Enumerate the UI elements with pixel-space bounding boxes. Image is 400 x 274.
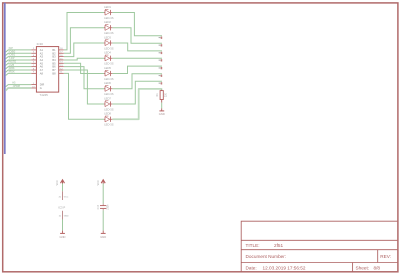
pin B7 (pin 12) (52, 68, 63, 72)
stub end mark 1 (159, 37, 163, 39)
svg-text:LED-3S: LED-3S (104, 123, 114, 127)
supply VCC (C1) (97, 180, 105, 186)
wire IC pin B6 to LED6 anode (64, 67, 104, 89)
pin A1 (pin 2) (31, 48, 43, 52)
svg-text:IC3 P: IC3 P (58, 205, 65, 209)
ground GND (C1) (100, 233, 106, 238)
wire VCC to IC3P VCC pin (62, 184, 64, 192)
svg-text:TITLE:: TITLE: (246, 243, 260, 248)
pin A5 (pin 6) (31, 61, 43, 65)
svg-text:C17: C17 (97, 204, 100, 209)
svg-text:LED3: LED3 (104, 35, 111, 39)
svg-text:GND: GND (64, 215, 69, 217)
svg-text:H5: H5 (12, 81, 16, 85)
svg-text:LED-3S: LED-3S (104, 16, 114, 20)
resistor R1 220 (160, 90, 163, 103)
wire net GVB from bus to IC pin A6 (6, 67, 32, 69)
svg-text:DIR: DIR (40, 83, 45, 87)
wire LED4 cathode to stub (112, 57, 162, 59)
svg-text:B8: B8 (52, 71, 56, 75)
wire net PISTE from bus to IC pin A5 (6, 63, 32, 65)
wire IC pin B4 to LED4 anode (64, 58, 104, 60)
svg-text:IRDK: IRDK (9, 69, 15, 73)
pin A3 (pin 4) (31, 55, 43, 59)
svg-text:20: 20 (59, 197, 62, 199)
capacitor C1 100n (100, 206, 106, 209)
LED LED2 (104, 25, 112, 31)
wire IC pin B1 to LED1 anode (64, 13, 104, 50)
wire IC pin B5 to LED5 anode (64, 63, 104, 73)
svg-text:LED-3S: LED-3S (104, 92, 114, 96)
wire LED3 cathode to stub (112, 43, 162, 51)
svg-text:VCC: VCC (97, 180, 100, 185)
wire resistor to ground (161, 103, 163, 109)
pin A7 (pin 8) (31, 68, 43, 72)
svg-text:8/8: 8/8 (374, 266, 381, 271)
pin A4 (pin 5) (31, 58, 43, 62)
pin G (pin 19) (31, 86, 42, 90)
svg-text:GND: GND (60, 235, 66, 239)
stub end mark 7 (159, 82, 163, 84)
svg-text:LED2: LED2 (104, 20, 111, 24)
wire LED1 cathode to stub (112, 13, 162, 36)
svg-text:12.03.2019 17:56:52: 12.03.2019 17:56:52 (263, 266, 306, 271)
svg-text:Date:: Date: (246, 266, 257, 271)
svg-text:LED-3S: LED-3S (104, 31, 114, 35)
pin A6 (pin 7) (31, 65, 43, 69)
LED LED6 (104, 86, 112, 92)
pin B8 (pin 11) (52, 71, 63, 75)
LED LED8 (104, 116, 112, 122)
pin DIR (pin 1) (31, 83, 44, 87)
stub end mark 2 (159, 44, 163, 46)
svg-text:LED-3S: LED-3S (104, 77, 114, 81)
wire net JP5#8 to IC pin G (6, 88, 32, 91)
wire net INP from bus to IC pin A1 (6, 50, 32, 52)
pin A2 (pin 3) (31, 51, 43, 55)
svg-text:LED1: LED1 (104, 5, 111, 9)
pin B3 (pin 16) (52, 55, 63, 59)
wire net IRDK from bus to IC pin A8 (6, 73, 32, 75)
pin A8 (pin 9) (31, 71, 43, 75)
supply VCC (IC power) (56, 180, 64, 186)
title block (241, 221, 397, 272)
svg-text:10: 10 (59, 215, 62, 217)
svg-text:REV:: REV: (380, 254, 391, 259)
svg-text:74245: 74245 (40, 93, 49, 97)
wire IC3P GND pin to ground (62, 219, 64, 230)
svg-text:JP5#8: JP5#8 (13, 84, 21, 88)
wire net IRBK from bus to IC pin A7 (6, 70, 32, 72)
wire net IO/B0 from bus to IC pin A2 (6, 53, 32, 55)
IC IC3 74245 bus transceiver body (36, 47, 58, 93)
wire LED5 cathode to stub (112, 66, 162, 73)
wire net IO/B1 from bus to IC pin A3 (6, 57, 32, 59)
svg-text:LED4: LED4 (104, 51, 111, 55)
stub end mark 3 (159, 52, 163, 54)
pin B5 (pin 14) (52, 61, 63, 65)
LED LED3 (104, 40, 112, 46)
wire IC pin B8 to LED8 anode (64, 73, 104, 119)
svg-text:LED-3S: LED-3S (104, 107, 114, 111)
svg-text:2f51: 2f51 (274, 243, 284, 248)
svg-text:LED7: LED7 (104, 96, 111, 100)
svg-text:Document Number:: Document Number: (246, 254, 287, 259)
stub end mark 5 (159, 67, 163, 69)
svg-text:VCC: VCC (64, 197, 69, 199)
wire VCC to capacitor C1 (102, 184, 104, 204)
pin B4 (pin 15) (52, 58, 63, 62)
svg-text:GND: GND (159, 112, 165, 116)
wire LED6 cathode to stub (112, 74, 162, 89)
wire net T-DP from bus to IC pin A4 (6, 60, 32, 62)
bus (blue) (4, 3, 6, 154)
svg-text:LED6: LED6 (104, 81, 111, 85)
wire IC pin B2 to LED2 anode (64, 28, 104, 54)
LED LED4 (104, 55, 112, 61)
svg-text:LED-3S: LED-3S (104, 46, 114, 50)
wire net H5 to IC pin DIR (6, 85, 32, 87)
stub end mark 4 (159, 59, 163, 61)
svg-text:Sheet:: Sheet: (356, 266, 370, 271)
ground GND (resistor) (159, 111, 165, 116)
LED LED1 (104, 9, 112, 15)
ground GND (IC3P) (60, 233, 66, 238)
title block text TITLE (246, 243, 391, 270)
svg-text:LED-3S: LED-3S (104, 62, 114, 66)
svg-text:LED8: LED8 (104, 112, 111, 116)
wire IC pin B3 to LED3 anode (64, 43, 104, 57)
svg-text:LED5: LED5 (104, 66, 111, 70)
stub end mark 6 (159, 75, 163, 77)
pin B2 (pin 17) (52, 51, 63, 55)
svg-text:A8: A8 (40, 71, 44, 75)
svg-text:100n: 100n (106, 204, 109, 210)
svg-text:G: G (40, 86, 42, 90)
wire capacitor C1 to ground (102, 209, 104, 211)
pin B6 (pin 13) (52, 65, 63, 69)
svg-text:VCC: VCC (56, 180, 59, 185)
LED LED7 (104, 101, 112, 107)
pin B1 (pin 18) (52, 48, 63, 52)
wire IC pin B7 to LED7 anode (64, 70, 104, 104)
wire LED2 cathode to stub (112, 28, 162, 44)
wire LED7 cathode to stub (112, 81, 162, 104)
svg-text:GND: GND (100, 235, 106, 239)
svg-text:IC30: IC30 (37, 42, 44, 46)
svg-text:220: 220 (164, 92, 167, 97)
svg-text:R1: R1 (156, 93, 159, 97)
IC3P power element (58, 191, 69, 219)
wire LED8 cathode to resistor R1 (thick net) (112, 89, 161, 119)
LED LED5 (104, 70, 112, 76)
